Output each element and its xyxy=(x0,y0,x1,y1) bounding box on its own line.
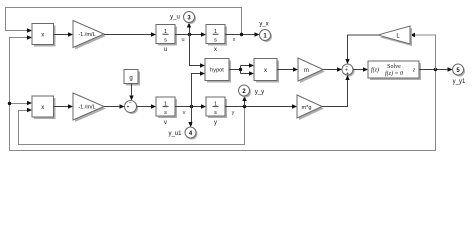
svg-text:y: y xyxy=(214,120,217,126)
svg-text:y: y xyxy=(232,110,235,116)
constant block g xyxy=(124,70,138,84)
svg-text:hypot: hypot xyxy=(210,68,224,74)
arrowhead into product PX input 2 xyxy=(249,71,254,75)
wire gain m to sum2 xyxy=(323,69,337,71)
outport 2 circle xyxy=(239,85,250,96)
svg-text:s: s xyxy=(214,110,217,116)
svg-text:y_y: y_y xyxy=(255,90,264,96)
svg-text:s: s xyxy=(164,37,167,43)
junction v xyxy=(190,105,193,108)
arrowhead into gain m xyxy=(293,67,298,71)
wire g down to sum1 top xyxy=(131,84,133,96)
svg-text:y_u1: y_u1 xyxy=(168,131,182,137)
svg-text:y_y1: y_y1 xyxy=(453,79,466,85)
product block P2 "x" xyxy=(32,96,54,117)
wire solve output to outport 5 xyxy=(419,69,448,71)
gain G2 "-1./m/L" shadow xyxy=(75,95,106,122)
arrowhead into solve block xyxy=(363,67,368,71)
wire u junction up to outport 3 xyxy=(189,24,191,35)
gain G1 "-1./m/L" shadow xyxy=(75,23,106,50)
gain G2 "-1./m/L" xyxy=(73,93,104,120)
outport 3 shadow xyxy=(185,13,196,24)
hypot block xyxy=(205,59,229,81)
svg-text:x: x xyxy=(41,32,44,38)
junction u xyxy=(188,33,191,36)
outport 1 shadow xyxy=(261,31,272,42)
outport 4 shadow xyxy=(187,129,198,140)
svg-text:u: u xyxy=(164,47,167,53)
svg-text:v: v xyxy=(183,110,186,116)
svg-text:−: − xyxy=(129,101,132,107)
arrowhead into integrator v xyxy=(151,104,156,108)
wire u output to integrator x xyxy=(175,34,201,36)
outport 2 shadow xyxy=(240,87,251,98)
sum1 shadow xyxy=(126,102,138,114)
arrowhead into integrator u xyxy=(151,32,156,36)
wire x-feedback loop (junction at x integrator output up over the top to product1 input 1) xyxy=(6,8,242,35)
junction x xyxy=(240,33,243,36)
wire T-feedback loop (solve output down, along bottom, up left side to product1 input 2) xyxy=(10,38,436,151)
product block P2 "x" shadow xyxy=(34,98,56,119)
wire y output to gain m*g xyxy=(225,106,292,108)
wire m*g output up into sum2 bottom xyxy=(322,80,348,107)
svg-text:s: s xyxy=(214,37,217,43)
wire gain2 to sum1 xyxy=(104,106,120,108)
svg-text:-1./m/L: -1./m/L xyxy=(78,105,95,111)
gain MG "m*g" xyxy=(297,95,322,118)
product block PX "x" xyxy=(254,59,277,81)
arrowhead into gain1 xyxy=(68,32,73,36)
wire u junction down to hypot input 1 xyxy=(190,35,201,66)
algebraic constraint block shadow xyxy=(370,63,421,80)
svg-text:x: x xyxy=(264,68,267,74)
product block PX "x" shadow xyxy=(256,61,279,83)
svg-text:m*g: m*g xyxy=(302,105,312,111)
wire sum2 to solve block xyxy=(353,69,363,71)
svg-text:v: v xyxy=(164,120,167,126)
gain L triangle (points left) xyxy=(378,26,410,44)
outport 4 circle xyxy=(185,127,196,138)
integrator V "1/s" xyxy=(156,97,175,116)
wire v output to integrator y xyxy=(175,106,201,108)
gain L shadow xyxy=(380,28,412,46)
integrator X "1/s" xyxy=(206,25,225,44)
arrowhead into product1 input 1 xyxy=(27,28,32,32)
svg-text:f(z) = 0: f(z) = 0 xyxy=(385,70,403,77)
integrator X shadow xyxy=(208,27,227,46)
svg-text:x: x xyxy=(214,47,217,53)
arrowhead into product1 input 2 xyxy=(27,35,32,39)
junction T tap xyxy=(8,102,11,105)
wire y-feedback loop (y junction down, along bottom, up to product2 input 2) xyxy=(19,107,245,145)
svg-text:y_u: y_u xyxy=(170,15,180,21)
gain G1 "-1./m/L" xyxy=(73,21,104,48)
integrator U shadow xyxy=(158,27,177,46)
arrowhead into outport 1 xyxy=(255,32,260,36)
arrowhead into product PX input 1 xyxy=(249,63,254,67)
arrowhead into hypot input 1 xyxy=(200,63,205,67)
arrowhead into outport 2 xyxy=(242,96,246,101)
outport 5 shadow xyxy=(454,66,465,77)
wire gain1 to integrator u xyxy=(104,34,151,36)
sum2 circle xyxy=(342,64,353,75)
gain M "m" shadow xyxy=(300,60,325,83)
svg-text:g: g xyxy=(129,76,132,82)
wire gain L output down into sum2 top xyxy=(348,35,379,59)
wire x output to outport 1 xyxy=(225,34,255,36)
svg-text:-1./m/L: -1./m/L xyxy=(78,32,95,38)
arrowhead into integrator y xyxy=(201,104,206,108)
integrator Y "1/s" xyxy=(206,97,225,116)
wire hypot output split to product PX inputs xyxy=(229,69,241,71)
product block P1 "x" shadow xyxy=(34,26,56,47)
wire sum1 to integrator v xyxy=(137,106,152,108)
outport 3 circle xyxy=(184,12,195,23)
wire v junction down to outport 4 xyxy=(191,107,193,126)
svg-text:Solve: Solve xyxy=(387,64,401,70)
arrowhead into product2 input 2 xyxy=(27,108,32,112)
junction y xyxy=(243,105,246,108)
wire v junction up to hypot input 2 xyxy=(192,74,201,107)
arrowhead into integrator x xyxy=(201,32,206,36)
svg-text:f(z): f(z) xyxy=(371,67,379,74)
svg-text:s: s xyxy=(164,110,167,116)
integrator Y shadow xyxy=(208,99,227,118)
arrowhead into sum1 left xyxy=(120,104,125,108)
arrowhead into sum2 left xyxy=(337,67,342,71)
arrowhead into hypot input 2 xyxy=(200,71,205,75)
svg-text:u: u xyxy=(181,37,184,43)
gain M "m" xyxy=(298,58,323,81)
svg-text:x: x xyxy=(233,37,236,43)
svg-text:y_x: y_x xyxy=(259,22,268,28)
wire y junction up to outport 2 xyxy=(244,98,246,107)
wire solve junction up to gain L xyxy=(415,35,436,70)
arrowhead into sum2 bottom xyxy=(345,75,349,80)
arrowhead into outport 4 (pointing down) xyxy=(188,122,192,127)
hypot block shadow xyxy=(207,61,231,83)
outport 1 circle xyxy=(260,30,271,41)
arrowhead into product2 input 1 xyxy=(27,101,32,105)
svg-text:−: − xyxy=(346,64,349,70)
svg-text:x: x xyxy=(41,105,44,111)
sum1 circle xyxy=(125,101,137,113)
wire product2 to gain2 xyxy=(54,106,69,108)
arrowhead into outport 5 xyxy=(448,67,453,71)
wire product PX to gain m xyxy=(277,69,293,71)
wire product1 to gain1 xyxy=(54,34,69,36)
wire T tap to product2 input 1 xyxy=(10,103,29,105)
junction solve output xyxy=(434,68,437,71)
junction hypot output xyxy=(239,68,242,71)
integrator U "1/s" xyxy=(156,25,175,44)
arrowhead into sum2 top xyxy=(345,59,349,64)
arrowhead into gain2 xyxy=(68,104,73,108)
integrator V shadow xyxy=(158,99,177,118)
arrowhead into outport 3 xyxy=(187,23,191,28)
arrowhead into gain L (pointing left) xyxy=(410,33,415,37)
outport 5 circle xyxy=(453,64,464,75)
svg-text:m: m xyxy=(304,68,309,74)
sum2 shadow xyxy=(344,66,355,77)
arrowhead into sum1 top xyxy=(129,96,133,101)
product block P1 "x" xyxy=(32,24,54,45)
algebraic constraint block "Solve f(z)=0" xyxy=(368,61,419,78)
constant block g shadow xyxy=(126,72,140,86)
gain MG "m*g" shadow xyxy=(299,97,324,120)
arrowhead into gain m*g xyxy=(292,104,297,108)
